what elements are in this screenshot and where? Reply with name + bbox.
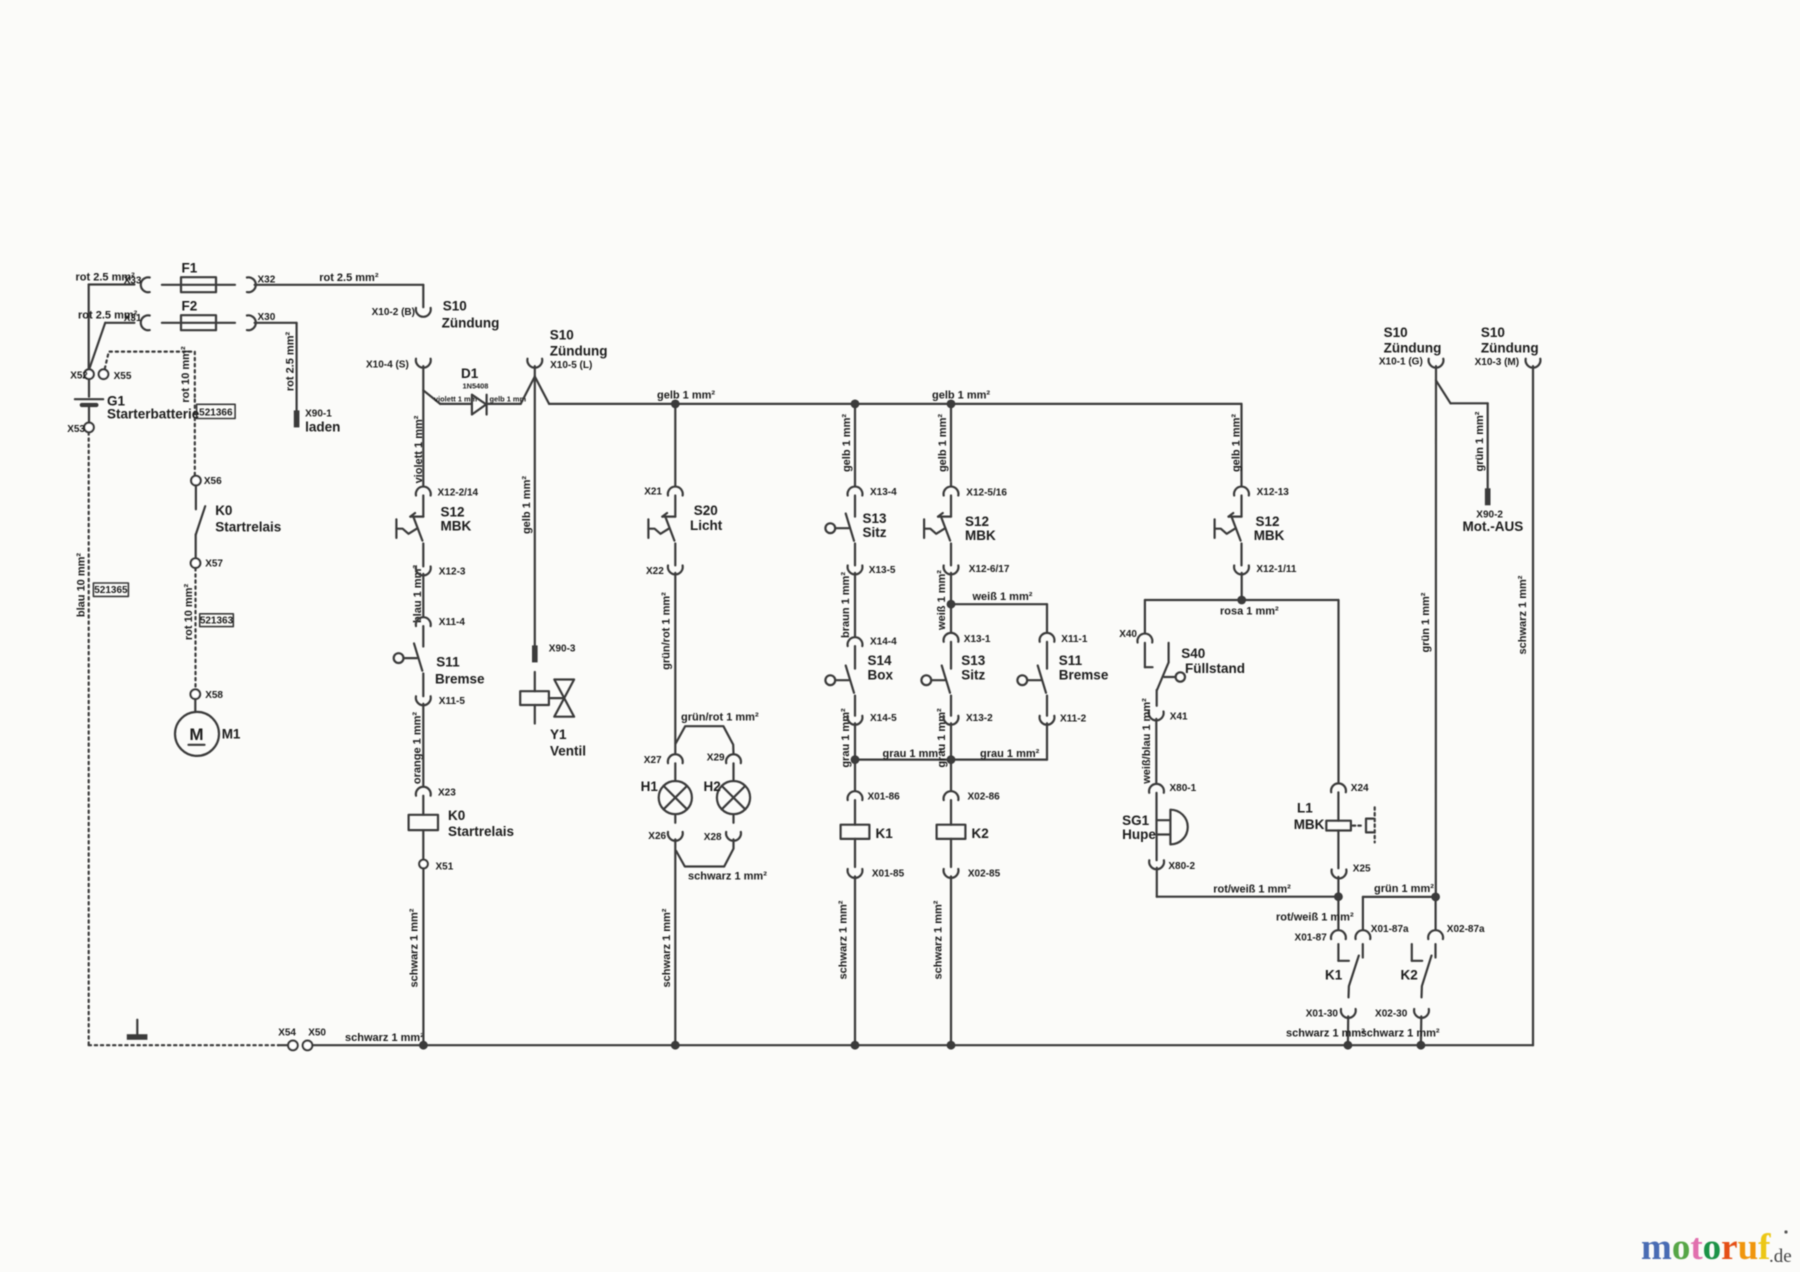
connector X12-5/16: [944, 487, 1008, 499]
node junction gelb at S12 branch: [947, 400, 956, 409]
svg-text:S20: S20: [694, 503, 718, 518]
svg-text:X01-87a: X01-87a: [1371, 924, 1409, 935]
ground symbol: [127, 1020, 148, 1040]
wire violett 1 mm2 down to S12 MBK: [413, 366, 425, 486]
wire gelb 1 mm2 down to X13-4: [841, 404, 855, 486]
wire gelb 1 mm2 down to X12-5/16: [937, 404, 951, 486]
connector X10-3 (M) of ignition switch S10: [1475, 325, 1541, 368]
svg-text:motoruf: motoruf: [1641, 1227, 1771, 1268]
connector X40: [1119, 629, 1152, 643]
svg-text:X14-5: X14-5: [870, 713, 897, 724]
svg-text:rot 2.5 mm²: rot 2.5 mm²: [284, 332, 296, 392]
svg-text:X13-2: X13-2: [966, 713, 993, 724]
connector X13-1: [944, 633, 991, 645]
relay coil K1: [841, 800, 894, 841]
connector X25: [1332, 863, 1371, 878]
svg-text:X30: X30: [258, 312, 276, 323]
svg-text:Starterbatterie: Starterbatterie: [107, 406, 200, 421]
svg-text:Hupe: Hupe: [1122, 827, 1156, 842]
node junction weiss: [947, 600, 956, 609]
svg-text:X21: X21: [644, 486, 662, 497]
dashed wire blau 10 mm2 from X53 down to ground line: [75, 432, 88, 1045]
wire weiss 1 mm2 crossbar to S11 Bremse: [951, 591, 1047, 633]
relay contact K2: [1401, 944, 1436, 997]
wire to X11-4: [422, 574, 424, 617]
wire schwarz 1 mm2 K1 to ground bus: [1286, 1016, 1365, 1049]
svg-text:X11-5: X11-5: [439, 696, 466, 707]
svg-text:.de: .de: [1769, 1246, 1792, 1267]
svg-text:F1: F1: [182, 261, 198, 276]
svg-text:X12-5/16: X12-5/16: [966, 487, 1007, 498]
svg-text:X10-1 (G): X10-1 (G): [1379, 357, 1423, 368]
svg-text:braun 1 mm²: braun 1 mm²: [840, 572, 852, 638]
valve Y1 Ventil: [520, 672, 586, 758]
svg-text:grün/rot 1 mm²: grün/rot 1 mm²: [681, 712, 759, 724]
svg-text:X25: X25: [1353, 863, 1371, 874]
connector X29: [707, 753, 741, 764]
svg-text:M1: M1: [222, 727, 241, 742]
connector X21: [644, 486, 683, 497]
svg-text:X02-85: X02-85: [968, 869, 1001, 880]
connector X01-87: [1295, 930, 1346, 943]
svg-text:X90-1: X90-1: [305, 408, 332, 419]
svg-text:X33: X33: [124, 275, 142, 286]
svg-text:X01-85: X01-85: [872, 869, 905, 880]
svg-text:X10-4 (S): X10-4 (S): [366, 359, 409, 370]
svg-text:S11: S11: [436, 655, 460, 670]
switch S40 Fuellstand (fuel level): [1145, 643, 1245, 706]
svg-text:Zündung: Zündung: [442, 315, 500, 330]
wire rot 2.5 mm2 from X32 to ignition X10-2: [255, 272, 424, 307]
relay contact K0 Startrelais (switch): [196, 486, 281, 535]
svg-text:Zündung: Zündung: [1481, 340, 1539, 355]
node junction rot/weiss at X01-87: [1276, 877, 1354, 930]
connector X12-13: [1234, 487, 1289, 498]
svg-text:X51: X51: [436, 862, 454, 873]
svg-text:X13-1: X13-1: [964, 634, 991, 645]
svg-text:orange 1 mm²: orange 1 mm²: [411, 712, 423, 784]
svg-text:grün 1 mm²: grün 1 mm²: [1474, 411, 1486, 471]
wire gelb 1 mm2 corner down to X12-13: [1230, 404, 1242, 486]
switch S11 Bremse (second): [1017, 642, 1108, 693]
svg-text:weiß 1 mm²: weiß 1 mm²: [936, 570, 948, 631]
indicator L1 MBK with mechanical link: [1294, 792, 1375, 842]
lamp H1: [641, 763, 692, 823]
connector X12-3: [416, 566, 466, 577]
wire down to X40: [1144, 600, 1146, 633]
svg-text:X31: X31: [124, 313, 142, 324]
svg-text:weiß 1 mm²: weiß 1 mm²: [972, 591, 1033, 603]
connector X30: [247, 312, 276, 330]
svg-text:X54: X54: [278, 1028, 296, 1039]
battery G1 Starterbatterie: [75, 379, 200, 422]
connector X02-87a: [1428, 897, 1485, 939]
wire gruen 1 mm2 from X10-1 down to gruen junction: [1420, 366, 1436, 897]
wire schwarz 1 mm2 K2 to ground bus: [1361, 1016, 1440, 1049]
svg-text:K2: K2: [1401, 968, 1418, 983]
switch S11 Bremse (brake): [394, 626, 485, 686]
svg-text:schwarz 1 mm²: schwarz 1 mm²: [1517, 575, 1529, 654]
connector X01-87a: [1355, 924, 1409, 939]
svg-text:X12-6/17: X12-6/17: [969, 564, 1010, 575]
terminal X57: [191, 535, 224, 570]
connector X28: [704, 832, 741, 843]
svg-text:Zündung: Zündung: [550, 343, 608, 358]
wire schwarz 1 mm2 from X01-85 to ground bus: [838, 876, 860, 1049]
ground bus schwarz 1 mm2: [312, 1032, 1533, 1045]
terminal X54: [278, 1028, 298, 1051]
svg-text:S40: S40: [1181, 646, 1205, 661]
svg-text:schwarz 1 mm²: schwarz 1 mm²: [933, 900, 945, 979]
wire to X14-4: [854, 573, 856, 637]
lamp H2: [704, 763, 751, 823]
node junction gelb at S20 branch: [671, 400, 680, 409]
motoruf.de logo: [1641, 1227, 1792, 1268]
svg-text:X27: X27: [644, 755, 662, 766]
blind plug X90-2 (Mot.-AUS): [1463, 488, 1524, 534]
connector X02-30: [1375, 1009, 1429, 1020]
svg-text:X40: X40: [1119, 629, 1137, 640]
wire gelb 1 mm2 down to X21: [674, 404, 676, 486]
svg-text:M: M: [189, 725, 203, 744]
connector X12-6/17: [944, 564, 1010, 575]
node junction gruen: [1431, 893, 1440, 902]
svg-text:X22: X22: [646, 566, 664, 577]
node junction grau at K2: [947, 755, 956, 764]
svg-text:X10-2 (B): X10-2 (B): [372, 307, 415, 318]
connector X01-86: [848, 791, 901, 802]
connector X02-85: [944, 839, 1001, 880]
wire grau 1 mm2 second: [936, 696, 951, 768]
svg-text:X90-3: X90-3: [549, 644, 576, 655]
wire weiss/blau 1 mm2 from X41 to horn X80-1: [1141, 698, 1156, 785]
wire grau 1 mm2 from X11-2 down to crossbar: [1046, 723, 1048, 759]
wire rosa 1 mm2: [1145, 600, 1339, 618]
svg-text:S12: S12: [1256, 514, 1280, 529]
node junction gelb at S13 branch: [851, 400, 860, 409]
svg-text:X12-13: X12-13: [1257, 487, 1290, 498]
switch S20 Licht (light): [648, 496, 722, 541]
svg-text:521365: 521365: [94, 585, 128, 596]
svg-text:grün/rot 1 mm²: grün/rot 1 mm²: [661, 592, 673, 670]
fuse F2: [162, 299, 235, 331]
svg-text:521363: 521363: [200, 615, 234, 626]
svg-text:Bremse: Bremse: [435, 671, 485, 686]
svg-text:rot 2.5 mm²: rot 2.5 mm²: [319, 272, 379, 284]
svg-text:1N5408: 1N5408: [463, 381, 489, 390]
svg-text:X26: X26: [648, 831, 666, 842]
wire gelb 1 mm2 from X10-5 down to plug X90-3: [521, 377, 535, 646]
connector X01-30: [1306, 1009, 1356, 1020]
switch S12 MBK (third): [1215, 496, 1285, 544]
svg-text:schwarz 1 mm²: schwarz 1 mm²: [661, 908, 673, 987]
connector X02-86: [944, 791, 1001, 802]
connector X80-1: [1149, 783, 1197, 794]
connector X41: [1149, 711, 1188, 722]
connector X10-4 (S) of ignition switch S10: [366, 359, 431, 371]
svg-text:D1: D1: [461, 366, 479, 381]
connector X27: [644, 754, 683, 766]
svg-text:MBK: MBK: [1294, 817, 1325, 832]
wire branch to diode D1: [423, 390, 477, 404]
wire schwarz 1 mm2 from X51 to ground bus: [408, 868, 427, 1049]
svg-text:MBK: MBK: [965, 528, 996, 543]
svg-text:grau 1 mm²: grau 1 mm²: [936, 708, 948, 768]
svg-text:S10: S10: [1481, 325, 1505, 340]
svg-text:X13-4: X13-4: [870, 487, 897, 498]
wire down to weiss junction: [950, 573, 952, 633]
svg-text:X12-3: X12-3: [439, 566, 466, 577]
connector X01-85: [848, 839, 905, 880]
wire rot 2.5 mm2 from X30 to charge plug X90-1: [255, 323, 297, 410]
svg-text:schwarz 1 mm²: schwarz 1 mm²: [408, 908, 420, 987]
connector X11-4: [416, 617, 466, 628]
wire grau 1 mm2: [840, 696, 855, 768]
svg-text:S11: S11: [1059, 653, 1083, 668]
switch S12 MBK (second): [924, 496, 996, 544]
wire to K0 coil: [422, 704, 424, 787]
svg-text:S12: S12: [441, 504, 465, 519]
svg-text:grün 1 mm²: grün 1 mm²: [1420, 592, 1432, 652]
terminal X50: [303, 1028, 327, 1051]
connector X11-1: [1040, 633, 1088, 645]
svg-text:gelb 1 mm²: gelb 1 mm²: [932, 390, 990, 402]
connector X10-5 (L) of ignition switch S10: [521, 328, 608, 404]
wire down to rosa junction: [1241, 573, 1243, 600]
svg-text:X28: X28: [704, 832, 722, 843]
terminal X55: [99, 369, 132, 381]
relay coil K2: [937, 800, 989, 841]
connector X22: [646, 566, 683, 578]
horn SG1 Hupe: [1122, 793, 1188, 845]
svg-text:X10-5 (L): X10-5 (L): [550, 360, 592, 371]
wire from L1 to X25: [1337, 831, 1339, 869]
svg-text:blau 10 mm²: blau 10 mm²: [75, 553, 87, 618]
node junction rosa: [1237, 596, 1246, 605]
svg-text:rosa 1 mm²: rosa 1 mm²: [1220, 606, 1279, 618]
svg-text:rot/weiß 1 mm²: rot/weiß 1 mm²: [1276, 911, 1354, 923]
switch S13 Sitz (seat): [825, 496, 887, 541]
connector X13-5: [848, 565, 896, 576]
svg-text:S10: S10: [1384, 325, 1408, 340]
svg-text:MBK: MBK: [1254, 528, 1285, 543]
part number 521366: [197, 404, 236, 418]
svg-text:X13-5: X13-5: [869, 565, 896, 576]
svg-text:X24: X24: [1351, 783, 1369, 794]
svg-text:S12: S12: [965, 514, 989, 529]
wire gelb 1 mm2 top bus: [549, 390, 1241, 404]
wire weiss 1 mm2: [936, 544, 951, 631]
wire blau 1 mm2: [412, 544, 424, 624]
svg-text:Startrelais: Startrelais: [215, 520, 281, 535]
connector X10-2 (B) of ignition switch S10: [372, 299, 500, 331]
dashed wire rot 10 mm2 from X55 to start relay X56: [105, 346, 195, 475]
svg-text:X01-86: X01-86: [868, 792, 901, 803]
svg-text:X01-30: X01-30: [1306, 1009, 1339, 1020]
connector X31: [124, 313, 150, 330]
svg-text:gelb 1 mm²: gelb 1 mm²: [657, 390, 715, 402]
svg-text:rot/weiß 1 mm²: rot/weiß 1 mm²: [1213, 884, 1291, 896]
svg-text:X02-30: X02-30: [1375, 1009, 1408, 1020]
svg-text:Bremse: Bremse: [1059, 668, 1109, 683]
wire down through grau junction: [950, 723, 952, 791]
svg-text:K0: K0: [215, 503, 232, 518]
wire down to grau junction: [854, 723, 856, 791]
svg-text:schwarz 1 mm²: schwarz 1 mm²: [1361, 1027, 1440, 1039]
terminal X58: [191, 689, 224, 700]
svg-text:X02-87a: X02-87a: [1447, 924, 1485, 935]
wire schwarz 1 mm2 lamp merge: [661, 839, 767, 1049]
svg-text:Mot.-AUS: Mot.-AUS: [1463, 519, 1524, 534]
svg-text:X02-86: X02-86: [968, 792, 1001, 803]
svg-text:schwarz 1 mm²: schwarz 1 mm²: [688, 870, 767, 882]
svg-text:X55: X55: [114, 371, 132, 382]
connector X26: [648, 831, 682, 842]
svg-text:X57: X57: [205, 559, 223, 570]
connector X12-2/14: [416, 487, 479, 499]
fuse F1: [162, 261, 235, 293]
svg-text:X01-87: X01-87: [1295, 932, 1328, 943]
svg-text:Sitz: Sitz: [961, 668, 985, 683]
svg-text:X56: X56: [204, 476, 222, 487]
wire rosa corner down to X24: [1337, 600, 1339, 783]
svg-text:gelb 1 mm²: gelb 1 mm²: [937, 414, 949, 472]
wire grau 1 mm2 crossbar: [855, 748, 1047, 760]
svg-text:grau 1 mm²: grau 1 mm²: [980, 748, 1040, 760]
dashed wire rot 10 mm2 from X57 to X58: [183, 568, 196, 689]
svg-text:X58: X58: [205, 690, 223, 701]
svg-text:SG1: SG1: [1122, 813, 1150, 828]
terminal X53 of battery: [67, 423, 94, 436]
svg-text:F2: F2: [182, 299, 198, 314]
svg-text:X80-1: X80-1: [1170, 783, 1197, 794]
switch S13 Sitz (second): [921, 642, 985, 693]
wire schwarz 1 mm2 from X02-85 to ground bus: [933, 876, 956, 1049]
connector X23: [416, 787, 456, 799]
svg-text:grau 1 mm²: grau 1 mm²: [840, 708, 852, 768]
svg-text:X80-2: X80-2: [1168, 861, 1195, 872]
svg-text:violett 1 mm²: violett 1 mm²: [413, 415, 425, 483]
svg-text:X53: X53: [67, 424, 85, 435]
wire rot 2.5 mm2 from battery X52 to fuse F1 connector X33: [76, 272, 136, 370]
svg-text:S13: S13: [961, 653, 986, 668]
svg-text:laden: laden: [305, 420, 340, 435]
svg-text:521366: 521366: [199, 407, 233, 418]
connector X10-1 (G) of ignition switch S10: [1379, 325, 1444, 368]
motor M1 (starter): [175, 699, 241, 756]
svg-text:gelb 1 mm²: gelb 1 mm²: [521, 476, 533, 534]
terminal X56: [191, 476, 222, 487]
part number 521365: [93, 583, 128, 596]
svg-text:K1: K1: [1325, 968, 1343, 983]
wire gruen 1 mm2 branch crossbar: [1363, 883, 1436, 930]
svg-text:X29: X29: [707, 753, 725, 764]
connector X13-4: [848, 487, 898, 498]
wire braun 1 mm2: [840, 544, 855, 639]
svg-text:MBK: MBK: [441, 519, 472, 534]
connector X12-1/11: [1234, 564, 1297, 575]
connector X80-2: [1149, 835, 1195, 873]
connector X11-5: [416, 696, 466, 707]
svg-text:X12-1/11: X12-1/11: [1256, 564, 1296, 575]
blind plug X90-3: [532, 644, 576, 663]
svg-text:K1: K1: [876, 826, 894, 841]
svg-text:S10: S10: [550, 328, 574, 343]
diode D1 1N5408: [461, 366, 526, 415]
switch S14 Box (grass catcher): [825, 646, 893, 693]
switch S12 MBK (mower deck): [396, 496, 471, 541]
wire rot/weiss 1 mm2 from X80-2 to K1 junction: [1157, 868, 1339, 897]
svg-text:Zündung: Zündung: [1384, 340, 1442, 355]
svg-text:rot 10 mm²: rot 10 mm²: [183, 584, 195, 641]
svg-text:H1: H1: [641, 779, 659, 794]
wire to X22: [674, 544, 676, 566]
wire rot 2.5 mm2 from battery X52 to fuse F2 connector X31: [78, 310, 138, 370]
svg-text:weiß/blau 1 mm²: weiß/blau 1 mm²: [1141, 698, 1153, 785]
svg-text:X11-1: X11-1: [1061, 634, 1088, 645]
relay coil K0 Startrelais: [409, 796, 514, 840]
svg-text:X10-3 (M): X10-3 (M): [1475, 357, 1519, 368]
wire schwarz 1 mm2 from X10-3 down to ground bus: [1517, 366, 1533, 1045]
terminal X51: [419, 830, 454, 872]
wire to X12-1/11: [1240, 544, 1242, 566]
relay contact K1: [1325, 944, 1363, 997]
connector X14-5: [848, 713, 898, 725]
terminal X52 of battery: [70, 369, 94, 381]
wire orange 1 mm2: [411, 674, 423, 785]
svg-text:X41: X41: [1170, 711, 1188, 722]
svg-text:S13: S13: [863, 511, 888, 526]
svg-text:gelb 1 mm²: gelb 1 mm²: [1230, 414, 1242, 472]
svg-text:Box: Box: [868, 668, 894, 683]
svg-text:grau 1 mm²: grau 1 mm²: [883, 748, 943, 760]
svg-text:X23: X23: [438, 787, 456, 798]
connector X13-2: [944, 713, 994, 725]
svg-text:X14-4: X14-4: [870, 637, 897, 648]
connector X33: [124, 275, 150, 292]
svg-text:Ventil: Ventil: [550, 743, 586, 758]
svg-text:Licht: Licht: [690, 518, 723, 533]
connector X24: [1331, 783, 1369, 794]
svg-text:X12-2/14: X12-2/14: [438, 487, 479, 498]
svg-text:grün 1 mm²: grün 1 mm²: [1374, 883, 1434, 895]
svg-text:schwarz 1 mm²: schwarz 1 mm²: [838, 900, 850, 979]
wire gruen 1 mm2 branch to Mot.-AUS plug: [1436, 380, 1488, 488]
svg-text:S14: S14: [868, 653, 893, 668]
svg-text:Y1: Y1: [550, 727, 567, 742]
node junction grau at K1: [851, 755, 860, 764]
svg-text:L1: L1: [1297, 801, 1313, 816]
wire gruen/rot 1 mm2 down to lamp split: [661, 573, 676, 754]
svg-text:S10: S10: [443, 299, 467, 314]
svg-text:X50: X50: [308, 1028, 326, 1039]
svg-text:rot 10 mm²: rot 10 mm²: [180, 346, 192, 403]
svg-text:Sitz: Sitz: [863, 525, 887, 540]
svg-text:schwarz 1 mm²: schwarz 1 mm²: [345, 1032, 424, 1044]
svg-text:Füllstand: Füllstand: [1185, 661, 1245, 676]
connector X11-2: [1040, 696, 1087, 725]
connector X32: [247, 275, 276, 293]
svg-text:schwarz 1 mm²: schwarz 1 mm²: [1286, 1027, 1365, 1039]
blind plug X90-1 (laden): [294, 408, 341, 434]
svg-text:K2: K2: [972, 826, 989, 841]
svg-text:Startrelais: Startrelais: [448, 824, 514, 839]
dashed ground wire to X54: [89, 1044, 288, 1046]
connector X14-4: [848, 637, 898, 648]
part number 521363: [200, 614, 234, 627]
svg-text:K0: K0: [448, 808, 465, 823]
svg-text:X52: X52: [70, 370, 88, 381]
